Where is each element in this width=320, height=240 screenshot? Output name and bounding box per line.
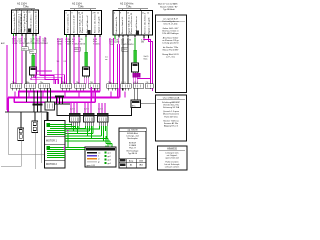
harness connector row1 #3 xyxy=(39,84,50,91)
svg-text:Abgang 87a 2.5: Abgang 87a 2.5 xyxy=(164,125,179,128)
U3 wire c thick riser xyxy=(117,38,119,97)
U2 wire f xyxy=(78,37,80,84)
U2 pin numbers xyxy=(66,13,100,15)
svg-text:16: 16 xyxy=(78,13,80,15)
svg-text:Kammer A2 30a: Kammer A2 30a xyxy=(164,122,179,125)
svg-text:4: 4 xyxy=(66,13,67,15)
pin labels above row2 xyxy=(70,109,103,111)
legend swatch grey xyxy=(87,160,100,163)
U2 green pin stub xyxy=(66,35,68,39)
svg-text:Verteiler 30a, 87a: Verteiler 30a, 87a xyxy=(163,104,180,107)
U2 green shield segment xyxy=(85,52,88,66)
svg-text:2.5: 2.5 xyxy=(64,61,67,63)
control module U1 box xyxy=(12,10,39,34)
title block T xyxy=(119,128,146,168)
legend box xyxy=(85,147,116,167)
title block header xyxy=(119,128,146,132)
top right note text xyxy=(158,3,178,12)
svg-text:Masse Punkt 387: Masse Punkt 387 xyxy=(163,49,180,52)
row2 connector X1 xyxy=(70,114,81,127)
magenta bus lower pair xyxy=(8,88,120,112)
svg-text:VAG: VAG xyxy=(139,164,143,167)
svg-text:1/2b HR Radlager: 1/2b HR Radlager xyxy=(162,32,179,35)
legend swatch violet xyxy=(87,155,99,157)
svg-text:Bremsanlage: Bremsanlage xyxy=(127,150,140,152)
svg-text:MOTOR 2: MOTOR 2 xyxy=(46,163,58,166)
svg-text:27: 27 xyxy=(121,160,123,162)
svg-text:Klemme 15a Geber 4: Klemme 15a Geber 4 xyxy=(144,12,147,34)
row1 connector #10 xyxy=(145,82,153,88)
svg-text:qmm 0.35: qmm 0.35 xyxy=(87,165,95,167)
svg-text:T6c: T6c xyxy=(40,82,43,84)
box3 wire mid labels xyxy=(105,57,108,62)
svg-text:T24/2: T24/2 xyxy=(43,43,49,45)
svg-text:Klemme 15a Geber 4: Klemme 15a Geber 4 xyxy=(94,11,97,33)
branch bus pair xyxy=(14,87,95,102)
svg-text:T6f: T6f xyxy=(90,82,93,84)
harness connector row1 #1 xyxy=(11,84,22,91)
svg-text:Bremse, hinten re: Bremse, hinten re xyxy=(162,30,179,33)
svg-text:vgl. 845/08: vgl. 845/08 xyxy=(127,130,138,132)
green fan bottom entries xyxy=(65,128,85,149)
row1 connector labels xyxy=(12,82,111,84)
relay box A green LED 1 xyxy=(47,123,51,127)
U3 wire e xyxy=(127,38,129,85)
junction box VERTEILER xyxy=(131,100,141,108)
harness connector row1 #6 xyxy=(89,84,100,91)
svg-text:A4: A4 xyxy=(130,164,132,167)
U2 sensor connector G2 xyxy=(83,67,90,84)
U3 green pin stub xyxy=(114,35,116,39)
svg-text:4: 4 xyxy=(13,12,14,14)
U3 sensor connector G3 xyxy=(132,63,139,84)
U1 sensor connector G1 xyxy=(30,67,65,84)
notes box N1 xyxy=(156,15,187,93)
relay box A label 1 xyxy=(46,140,58,143)
black drops to inline connector xyxy=(27,88,51,102)
svg-text:Blatt 27 von 42 ABS: Blatt 27 von 42 ABS xyxy=(158,3,178,6)
svg-text:Bremse vorn li 1/2: Bremse vorn li 1/2 xyxy=(73,15,76,33)
svg-text:21: 21 xyxy=(93,13,95,15)
svg-text:21: 21 xyxy=(142,13,144,15)
fuse S1 xyxy=(18,128,24,141)
title block table xyxy=(119,159,146,169)
U3 pin numbers xyxy=(114,13,149,15)
svg-text:Klemme 15a Geber 4: Klemme 15a Geber 4 xyxy=(35,11,38,33)
fuse S2 tail xyxy=(34,133,36,170)
green fan into legend xyxy=(106,136,112,147)
svg-text:2006: 2006 xyxy=(139,160,143,162)
relay box A magenta pins xyxy=(63,148,65,150)
svg-text:bis Stecker T24a: bis Stecker T24a xyxy=(163,46,179,49)
svg-text:T6e: T6e xyxy=(76,82,79,84)
green fan verticals from row2 xyxy=(72,126,108,141)
left feed wire xyxy=(6,45,8,110)
svg-text:Geber vorn links 2a: Geber vorn links 2a xyxy=(67,13,70,33)
row1 connector #9 xyxy=(133,82,144,100)
svg-text:Plan 27: Plan 27 xyxy=(129,148,137,150)
junction box right wire xyxy=(141,103,157,105)
svg-text:T24/16: T24/16 xyxy=(79,44,86,46)
svg-text:zu Legende A 27: zu Legende A 27 xyxy=(163,17,179,20)
svg-text:Farbcode Leitungen: Farbcode Leitungen xyxy=(87,148,104,151)
svg-text:Typ 8E 06: Typ 8E 06 xyxy=(128,153,138,155)
U2 wire mid marks xyxy=(57,61,67,63)
svg-text:24: 24 xyxy=(35,12,37,14)
legend note line xyxy=(87,165,95,167)
U2 wire e xyxy=(73,37,75,84)
svg-text:Sicherung S5 15A: Sicherung S5 15A xyxy=(163,106,180,109)
svg-text:an Klemme 2/3 ge: an Klemme 2/3 ge xyxy=(162,40,179,42)
control module U3 box xyxy=(113,11,153,36)
U2 wire a xyxy=(57,38,59,84)
svg-text:T6d: T6d xyxy=(62,82,65,84)
svg-text:9: 9 xyxy=(18,12,19,14)
U2 wire b xyxy=(61,38,63,84)
branch drops group3 xyxy=(99,103,105,114)
svg-text:Bremse hinten li 1: Bremse hinten li 1 xyxy=(121,16,124,34)
U1 mid splice labels xyxy=(22,47,37,54)
svg-text:T24c: T24c xyxy=(126,6,132,9)
svg-text:T24/21: T24/21 xyxy=(93,44,100,46)
U3 bend wire 2 to riser xyxy=(149,38,153,91)
relay box A label 2 xyxy=(46,163,58,166)
fuse S1 tail xyxy=(1,141,21,167)
U1 wire labels xyxy=(12,38,44,45)
notes box N3 header xyxy=(159,148,185,150)
svg-text:Signal ro 3b gelb: Signal ro 3b gelb xyxy=(148,17,151,34)
U2 green sensor wire xyxy=(85,37,87,52)
bus left hook xyxy=(18,92,20,98)
svg-text:Steckerplan: Steckerplan xyxy=(127,137,138,140)
legend green markers xyxy=(105,152,111,165)
svg-text:T24/4: T24/4 xyxy=(12,43,18,45)
U2 wire labels xyxy=(57,39,100,46)
svg-text:li/bl: li/bl xyxy=(141,42,145,44)
fuse S2 supply xyxy=(34,112,36,121)
svg-text:Leitungs- und: Leitungs- und xyxy=(126,135,138,138)
green fan h2 xyxy=(65,129,100,134)
row2 connector X2 xyxy=(84,114,95,127)
U2 wire right h xyxy=(99,37,101,92)
svg-text:Geber hinten li 3a: Geber hinten li 3a xyxy=(115,16,118,34)
U3 wire b xyxy=(113,38,115,84)
svg-text:gn2: gn2 xyxy=(108,156,111,158)
svg-text:gn1: gn1 xyxy=(108,152,111,154)
svg-text:Masse sw Klemme 31: Masse sw Klemme 31 xyxy=(82,11,84,33)
U1 wire 3 xyxy=(21,36,23,84)
svg-text:Typ 8E Audi: Typ 8E Audi xyxy=(163,8,175,11)
U1 green sensor wire xyxy=(32,36,34,55)
control module U1 label xyxy=(15,2,35,11)
harness connector row1 #5 xyxy=(75,84,86,91)
U1 green pin stub xyxy=(13,34,15,38)
svg-text:Stand 7.2006 / B7: Stand 7.2006 / B7 xyxy=(160,5,178,8)
svg-text:Signal ro 2b gelb: Signal ro 2b gelb xyxy=(98,16,101,33)
U3 pins xyxy=(115,35,149,38)
control module U2 label xyxy=(70,2,96,11)
notes box N3 xyxy=(158,146,188,170)
svg-text:9: 9 xyxy=(72,13,73,15)
G3 label blob xyxy=(133,73,141,78)
U3 internal dark pin square xyxy=(136,31,139,36)
stub drops to bus xyxy=(15,92,125,98)
svg-text:Geber G44 - G47: Geber G44 - G47 xyxy=(163,27,180,30)
svg-text:gn4: gn4 xyxy=(108,163,111,165)
svg-text:Geber vorn links 1a: Geber vorn links 1a xyxy=(13,13,16,33)
svg-text:T24a: T24a xyxy=(23,6,29,9)
U1 wire sw/li xyxy=(15,36,17,84)
harness connector row1 #8 xyxy=(121,82,132,90)
relay box A bottom-left xyxy=(45,121,66,169)
svg-text:21: 21 xyxy=(29,12,31,14)
U3 lower bend xyxy=(137,78,151,80)
green fan h3 xyxy=(65,136,110,141)
svg-text:T24b: T24b xyxy=(78,6,84,9)
harness connector row1 #4 xyxy=(61,84,72,91)
ground connector Z2 xyxy=(33,91,43,113)
U2 wire d black xyxy=(69,37,71,84)
U1 wire sw/ws xyxy=(13,36,15,84)
U2 internal dark pin square xyxy=(88,30,91,35)
svg-text:Punkt 507 links: Punkt 507 links xyxy=(164,115,178,118)
svg-text:Signal G44 1/2b ws: Signal G44 1/2b ws xyxy=(21,13,23,33)
svg-text:sw/bl: sw/bl xyxy=(115,42,120,44)
fuse S2 xyxy=(32,121,38,133)
U3 bend wire to riser xyxy=(144,38,151,89)
left feed wire label xyxy=(1,42,5,45)
control module U2 box xyxy=(65,11,102,35)
harness connector row1 #2 xyxy=(25,84,36,91)
svg-text:9: 9 xyxy=(120,13,121,15)
inline connector box xyxy=(45,102,55,110)
branch drops group1 xyxy=(71,103,77,114)
U1 wire 8 xyxy=(43,37,59,84)
magenta bus upper pair xyxy=(18,91,100,93)
legend swatch orange xyxy=(87,157,100,160)
svg-text:4: 4 xyxy=(114,13,115,15)
svg-text:li/ws: li/ws xyxy=(144,59,148,61)
fuse S1 supply xyxy=(20,112,22,128)
U1 wire 4 black xyxy=(25,36,27,84)
riser label xyxy=(144,56,150,61)
U1 column pin text xyxy=(13,10,38,32)
svg-text:24: 24 xyxy=(147,13,149,15)
ground connector Z1 xyxy=(55,96,70,105)
relay box A inner greens 2 xyxy=(47,148,65,158)
svg-text:A4: A4 xyxy=(121,164,123,167)
legend title bar xyxy=(86,148,115,151)
svg-text:MOTOR 1: MOTOR 1 xyxy=(46,140,58,143)
svg-text:gn3: gn3 xyxy=(108,159,111,161)
relay box A inner greens 1 xyxy=(47,125,65,135)
title block text xyxy=(126,132,139,155)
ground distribution wire xyxy=(57,104,132,116)
svg-text:845/08-Blatt: 845/08-Blatt xyxy=(127,132,138,135)
notes box N2 xyxy=(156,95,187,141)
notes box N1 text xyxy=(157,17,185,58)
legend swatch black xyxy=(87,152,101,154)
svg-text:16: 16 xyxy=(23,12,25,14)
U1 pins xyxy=(14,34,37,37)
U1 wire 6 xyxy=(36,36,52,84)
svg-text:HINWEIS: HINWEIS xyxy=(167,148,177,150)
U3 wire a xyxy=(109,38,111,84)
svg-text:links VL (T-4/1): links VL (T-4/1) xyxy=(164,24,178,26)
branch drops group2 xyxy=(85,103,91,114)
U3 wire d black xyxy=(122,38,124,91)
svg-text:Masse sw Klemme 31: Masse sw Klemme 31 xyxy=(131,12,133,34)
svg-text:( 27 - 31 ): ( 27 - 31 ) xyxy=(166,57,175,59)
svg-text:Uso #29415-10A: Uso #29415-10A xyxy=(163,97,180,100)
svg-text:T6b: T6b xyxy=(26,82,29,84)
notes box N2 text xyxy=(162,101,181,128)
svg-text:16: 16 xyxy=(127,13,129,15)
U3 green shield segment xyxy=(134,50,137,62)
left ground rail xyxy=(5,111,48,113)
notes box N2 header xyxy=(157,97,185,100)
svg-text:Bezug Blatt 24-31: Bezug Blatt 24-31 xyxy=(162,53,179,56)
U2 wire right g xyxy=(94,37,96,97)
svg-text:5.3 ABS: 5.3 ABS xyxy=(129,144,137,147)
notes box N3 text xyxy=(164,152,180,169)
svg-text:querschnitt und: querschnitt und xyxy=(165,157,178,160)
left rail tail xyxy=(8,112,45,154)
U2 mid splice label xyxy=(74,47,81,51)
U1 green shield segment xyxy=(32,55,35,66)
U3 column pin text xyxy=(115,12,151,34)
U2 wire c xyxy=(66,37,68,84)
green fan h1 xyxy=(65,125,86,129)
svg-text:24: 24 xyxy=(97,13,99,15)
svg-text:Anschluss Geber: Anschluss Geber xyxy=(163,36,179,39)
U1 pin numbers xyxy=(13,12,37,14)
relay box A green LED 2 xyxy=(47,146,51,150)
svg-text:Ausg: Ausg xyxy=(129,159,133,162)
U3 wire labels xyxy=(109,39,146,46)
U3 green sensor wire xyxy=(134,38,136,50)
U3 mid splice label xyxy=(122,47,129,51)
svg-text:Leitung geschirmt: Leitung geschirmt xyxy=(162,42,179,45)
battery feed thick wire xyxy=(47,112,49,121)
harness connector row1 #7 xyxy=(107,84,118,91)
U1 wire 7 xyxy=(40,36,54,84)
svg-text:T6g: T6g xyxy=(108,82,111,84)
bottom thin rail xyxy=(35,112,45,163)
row2 connector X3 xyxy=(98,114,109,127)
svg-text:schlauch sichern: schlauch sichern xyxy=(165,166,179,168)
U1 internal dark pin square xyxy=(28,29,31,33)
control module U3 label xyxy=(118,2,148,11)
U2 column pin text xyxy=(67,11,101,33)
U2 pins xyxy=(67,35,101,38)
